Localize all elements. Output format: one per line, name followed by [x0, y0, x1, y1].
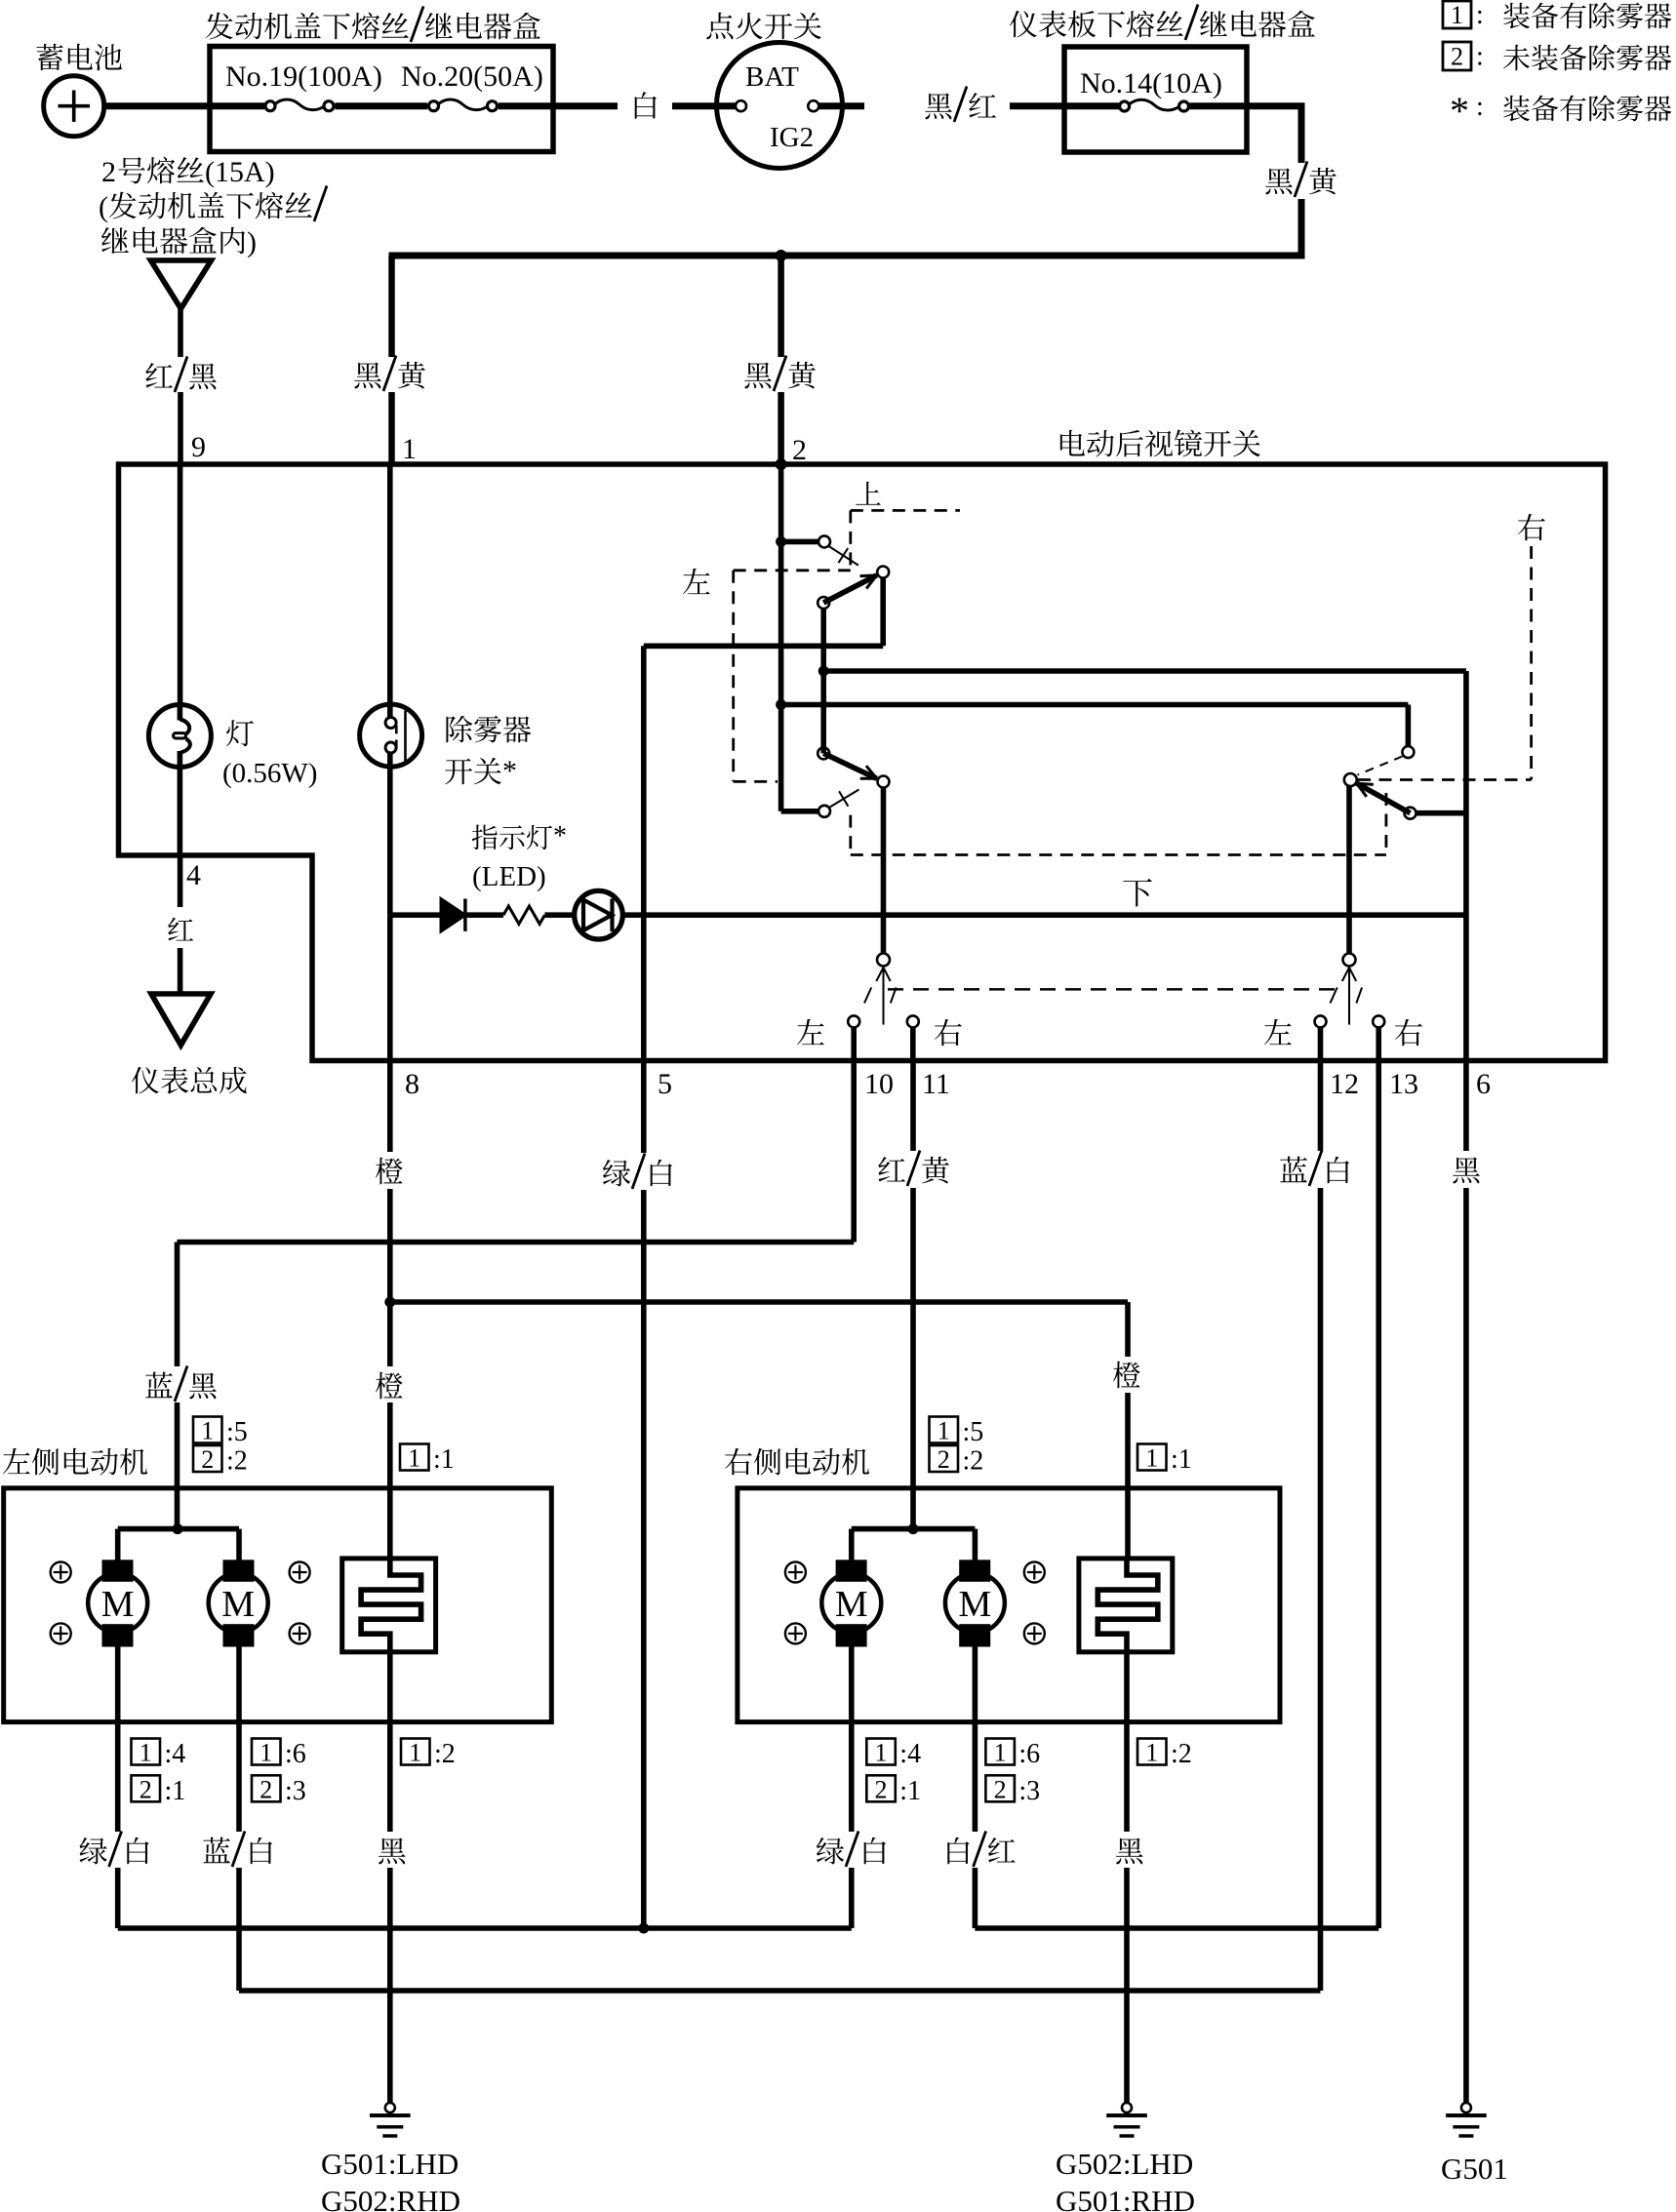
dashed rail 上 horizontal — [851, 509, 960, 512]
bottom rail A2 白/红 to pin13 — [975, 1925, 1378, 1931]
svg-text:BAT: BAT — [745, 61, 799, 93]
blade contact to right vertical — [1417, 810, 1466, 816]
dashed rail 上 vertical — [849, 510, 852, 570]
contact 左 pin10 — [848, 1015, 859, 1027]
wire 11 to motor bar — [910, 1188, 916, 1529]
svg-text:(15A): (15A) — [205, 156, 275, 188]
wire 2 drop lower — [778, 392, 784, 464]
svg-text:(0.56W): (0.56W) — [222, 758, 317, 789]
junction 橙 split — [384, 1297, 395, 1308]
wire 黑 right to ground — [1124, 1868, 1130, 2103]
svg-text:G501: G501 — [1441, 2152, 1508, 2186]
wire 绿/白 left lower — [115, 1868, 121, 1928]
legend row 1 — [1443, 1, 1471, 28]
svg-text:2: 2 — [140, 1775, 152, 1803]
junction wire5 — [638, 1923, 649, 1934]
junction center column — [818, 666, 829, 677]
label 左 pin12 — [1264, 1019, 1292, 1045]
wire 蓝/白 left upper — [236, 1722, 242, 1832]
橙 right to heater — [1125, 1393, 1131, 1559]
wire 8 continues — [387, 1189, 393, 1366]
wire 白 left — [553, 102, 618, 109]
wire color 黑 pin6 — [1453, 1157, 1480, 1183]
svg-text::5: :5 — [226, 1417, 248, 1447]
instrument cluster label — [132, 1067, 159, 1094]
wire color 黑 right — [1116, 1837, 1143, 1864]
wire color 橙 right — [1113, 1362, 1140, 1389]
mechanical link dashed — [888, 988, 1343, 991]
svg-text:IG2: IG2 — [770, 122, 814, 153]
svg-text:M: M — [835, 1584, 868, 1625]
wire 蓝/白 left lower — [236, 1868, 242, 1991]
svg-text:13: 13 — [1389, 1068, 1418, 1100]
wire 黑/红 right — [1010, 102, 1064, 109]
wire color 黑/黄 pin2 — [744, 362, 772, 388]
svg-text:4: 4 — [186, 859, 201, 891]
plus terminal symbol — [290, 1623, 310, 1643]
svg-text:9: 9 — [191, 431, 206, 463]
motor M1 right — [821, 1573, 881, 1633]
wire to diode — [390, 912, 441, 918]
switch blade lower-left — [818, 747, 829, 759]
fuse No.2 triangle symbol — [151, 260, 212, 309]
label 左 pin10 — [797, 1019, 824, 1045]
plus terminal symbol — [1024, 1623, 1045, 1643]
wire 10 horizontal — [178, 1240, 855, 1245]
lamp filament arc1 — [180, 720, 189, 735]
legend row 2 — [1443, 42, 1471, 70]
svg-text:1: 1 — [201, 1417, 214, 1445]
resistor — [503, 906, 544, 924]
wire 5 below box — [641, 1061, 647, 1154]
label 右 rail — [1518, 514, 1545, 540]
junction — [776, 250, 787, 261]
橙 left to heater — [387, 1402, 393, 1559]
wire 5 to bottom rail — [641, 1190, 647, 1928]
svg-text::2: :2 — [963, 1446, 984, 1477]
heater element right — [1079, 1559, 1173, 1652]
motor M1 left — [88, 1573, 147, 1633]
wire 2 drop upper — [778, 256, 784, 357]
lamp filament arc2 — [181, 739, 190, 753]
contact 左 pin12 — [1315, 1015, 1327, 1027]
svg-text:2: 2 — [994, 1775, 1007, 1803]
svg-text:1: 1 — [1451, 1, 1463, 29]
heater element left — [342, 1559, 436, 1652]
contact 右 pin13 — [1373, 1015, 1384, 1027]
label 右 pin11 — [935, 1019, 962, 1046]
dashed rail 左 vertical — [732, 571, 735, 782]
thin dashed link F — [1358, 757, 1403, 775]
wire 白/红 upper — [973, 1722, 978, 1832]
wire 1 to LED branch — [387, 753, 393, 915]
dashed rail 右 vertical — [1530, 546, 1533, 780]
wire 12 below box — [1318, 1061, 1324, 1152]
left motor bar — [118, 1526, 239, 1532]
wire diode to resistor — [465, 912, 503, 918]
svg-text:1: 1 — [994, 1739, 1007, 1767]
wire 5 vertical — [641, 646, 647, 1060]
wiper contact right — [1343, 954, 1356, 967]
wire color 白 — [635, 92, 657, 118]
svg-text::: : — [1476, 42, 1484, 72]
link B thin — [828, 790, 859, 809]
wire 2 vertical inside box — [778, 464, 784, 811]
dashed rail 左 horizontal — [734, 569, 851, 572]
svg-text:8: 8 — [405, 1068, 419, 1100]
svg-text::: : — [1476, 0, 1484, 30]
stub to contact A — [781, 539, 819, 545]
svg-text:1: 1 — [402, 433, 417, 465]
wire 1 drop lower — [388, 392, 395, 464]
wire battery to under-hood fuse box — [104, 102, 213, 109]
svg-text:*: * — [502, 755, 517, 787]
horizontal to wire 5 — [644, 643, 883, 649]
wire 黑 right upper — [1124, 1722, 1130, 1832]
wire to box edge — [499, 102, 553, 109]
switch blade upper-left — [823, 575, 876, 603]
left motor box title — [3, 1448, 30, 1474]
ground G501 right — [1461, 2103, 1471, 2113]
long horizontal feed wire — [389, 253, 1305, 259]
svg-text:2: 2 — [101, 156, 116, 188]
junction pin2 — [776, 458, 787, 470]
svg-text:G501:LHD: G501:LHD — [321, 2147, 459, 2181]
svg-text:G502:RHD: G502:RHD — [321, 2184, 460, 2212]
svg-text::1: :1 — [433, 1444, 455, 1475]
svg-text:1: 1 — [875, 1739, 888, 1767]
wire 12 long drop — [1318, 1188, 1324, 1991]
text line 2 — [109, 192, 137, 219]
battery 蓄电池 label — [36, 44, 62, 70]
contact 右 pin11 — [907, 1015, 919, 1027]
svg-text:G502:LHD: G502:LHD — [1056, 2147, 1193, 2181]
svg-text:5: 5 — [658, 1068, 672, 1100]
svg-text::4: :4 — [899, 1739, 921, 1769]
dashed rail 右 horizontal — [1358, 778, 1532, 781]
wire color 黑/红 — [925, 93, 952, 119]
wire 蓝/黑 lower — [175, 1402, 180, 1529]
wire color 蓝/白 pin12 — [1280, 1157, 1307, 1183]
ground G502/G501 middle — [1122, 2103, 1132, 2113]
diode — [441, 899, 465, 931]
plus terminal symbol — [51, 1623, 71, 1643]
battery symbol — [44, 76, 104, 137]
svg-text::3: :3 — [285, 1776, 306, 1806]
svg-text:2: 2 — [259, 1775, 272, 1803]
plus terminal symbol — [1024, 1562, 1045, 1583]
wire 黑/黄 drop upper — [1298, 106, 1305, 163]
wire color 蓝/白 left — [203, 1837, 230, 1864]
under-hood fuse/relay box 发动机盖下熔丝/继电器盒 — [210, 47, 553, 152]
svg-text::1: :1 — [899, 1776, 921, 1806]
IG2 terminal — [808, 100, 818, 111]
switch box title — [1060, 430, 1085, 456]
LED line to right vertical — [621, 912, 1466, 918]
defogger switch label line2 — [445, 759, 472, 785]
right vertical wire 6 — [1463, 671, 1469, 1061]
ground G501/G502 left — [385, 2103, 395, 2113]
wire 1 to defogger switch — [387, 464, 393, 718]
wire 白/红 lower — [973, 1868, 978, 1928]
svg-text::: : — [1476, 92, 1484, 122]
contact tail top — [395, 726, 398, 734]
motor wires down left box — [115, 1646, 121, 1722]
ground triangle 仪表总成 — [151, 994, 211, 1046]
ignition switch 点火开关 — [706, 13, 733, 39]
wire color 红/黑 — [145, 363, 173, 388]
svg-text:2: 2 — [792, 434, 807, 466]
switch box outline — [119, 464, 1606, 1061]
wire in box — [210, 102, 264, 109]
wire 绿/白 right lower — [849, 1868, 855, 1928]
svg-text:1: 1 — [1145, 1444, 1158, 1473]
svg-text:(LED): (LED) — [472, 861, 546, 892]
pivot column to wiper 2 — [1346, 786, 1352, 954]
wire 红/黑 lower — [178, 392, 183, 464]
svg-text::1: :1 — [1171, 1444, 1192, 1475]
svg-text:2: 2 — [938, 1445, 950, 1474]
wire to corner — [1247, 102, 1305, 109]
svg-text::1: :1 — [165, 1776, 186, 1806]
plus terminal symbol — [290, 1562, 310, 1583]
wire 黑/红 left — [819, 102, 865, 109]
wire color 绿/白 pin5 — [603, 1160, 630, 1186]
svg-text:12: 12 — [1330, 1068, 1359, 1100]
long horizontal to right vertical — [823, 668, 1466, 674]
svg-text:1: 1 — [140, 1739, 152, 1767]
contact A — [818, 535, 830, 547]
wire 黑 left upper — [387, 1722, 393, 1832]
svg-text::2: :2 — [434, 1739, 456, 1769]
pivot contact P — [1344, 773, 1357, 786]
橙 branch right drop — [1125, 1302, 1131, 1357]
wire color 红 — [168, 918, 193, 941]
svg-text:*: * — [553, 821, 567, 851]
wire resistor to LED — [544, 912, 575, 918]
svg-text:M: M — [221, 1584, 255, 1625]
wire color 蓝/黑 — [145, 1372, 173, 1399]
label 左 — [683, 569, 710, 594]
wire color 橙 pin8 — [376, 1158, 403, 1185]
wire 绿/白 left upper — [115, 1722, 121, 1832]
contact tail bottom — [395, 740, 398, 749]
svg-text:11: 11 — [922, 1068, 950, 1100]
wire 9 to lamp — [178, 464, 183, 705]
plus terminal symbol — [785, 1562, 806, 1583]
wiper contact left — [877, 954, 890, 967]
bottom rail B 蓝/白 to pin12 — [239, 1988, 1321, 1994]
wire 黑 left to ground — [387, 1868, 393, 2103]
contact F — [1402, 746, 1414, 758]
blade to wire5 link — [880, 578, 886, 647]
fuse No.20 — [429, 101, 439, 111]
svg-text:*: * — [1450, 89, 1469, 133]
BAT terminal — [736, 100, 746, 111]
svg-text::2: :2 — [226, 1446, 248, 1477]
wire color 黑 left — [379, 1837, 406, 1864]
wire 红 upper — [178, 855, 183, 907]
wire 红 lower — [178, 948, 183, 994]
svg-text::5: :5 — [963, 1417, 984, 1447]
plus terminal symbol — [51, 1562, 71, 1583]
lamp 灯(0.56W) — [148, 705, 211, 768]
svg-text:M: M — [101, 1584, 135, 1625]
svg-text:M: M — [959, 1584, 992, 1625]
svg-text:(: ( — [99, 191, 108, 223]
switch blade right — [1357, 783, 1411, 813]
svg-text:2: 2 — [1451, 43, 1463, 71]
motor wires down right box — [849, 1646, 855, 1722]
wire color 橙 left2 — [376, 1372, 403, 1400]
svg-text::6: :6 — [285, 1739, 306, 1769]
svg-text:1: 1 — [408, 1444, 420, 1473]
fuse No.14 — [1120, 101, 1130, 111]
svg-text::2: :2 — [1171, 1739, 1192, 1769]
wire to pin 8 — [387, 915, 393, 1060]
wire 10 below box — [851, 1061, 857, 1243]
wire 蓝/黑 upper — [175, 1243, 180, 1367]
svg-text:No.20(50A): No.20(50A) — [401, 60, 543, 93]
wire 绿/白 right upper — [849, 1722, 855, 1832]
plus terminal symbol — [785, 1623, 806, 1643]
motor M2 right — [945, 1573, 1005, 1633]
wire 13 long drop — [1376, 1061, 1381, 1929]
dashed rail 左 bottom — [734, 780, 778, 783]
svg-text:10: 10 — [864, 1068, 894, 1100]
wire color 黑/黄 right — [1265, 168, 1293, 194]
stub to contact B — [781, 809, 819, 814]
dash fuse/relay box 仪表板下熔丝/继电器盒 — [1064, 47, 1247, 152]
svg-text:2: 2 — [875, 1775, 888, 1803]
wire 黑/黄 drop lower — [1298, 199, 1305, 259]
wire color 黑/黄 pin1 — [354, 362, 381, 388]
fuse box title — [206, 13, 233, 40]
wire 6 to ground — [1463, 1188, 1469, 2103]
link A thin — [828, 546, 858, 566]
svg-text:No.14(10A): No.14(10A) — [1080, 67, 1222, 99]
drop to contact F — [1406, 705, 1412, 747]
junction stub A — [776, 536, 786, 547]
svg-text:1: 1 — [409, 1739, 421, 1767]
wire color 红/黄 pin11 — [878, 1157, 905, 1182]
motor M2 left — [209, 1573, 268, 1633]
label 下 — [1123, 879, 1151, 907]
svg-text:6: 6 — [1476, 1068, 1491, 1100]
wire 6 below box — [1463, 1061, 1469, 1152]
wire 白 right — [672, 102, 736, 109]
right motor bar — [852, 1526, 976, 1532]
wire 8 below box — [387, 1061, 393, 1153]
svg-text:1: 1 — [1145, 1739, 1158, 1767]
indicator LED label 指示灯* — [472, 825, 498, 850]
dash fuse box title — [1010, 11, 1037, 38]
svg-text:1: 1 — [938, 1417, 950, 1445]
defogger switch 除雾器开关* — [360, 704, 422, 767]
橙 branch horizontal — [390, 1299, 1128, 1305]
svg-text:No.19(100A): No.19(100A) — [225, 60, 382, 93]
wire 红/黑 upper — [178, 309, 183, 358]
wire 11 below box — [910, 1061, 916, 1152]
horizontal wire2 to right contact — [781, 702, 1409, 708]
column to wiper 1 — [881, 788, 887, 954]
svg-text:): ) — [247, 226, 257, 258]
svg-text:G501:RHD: G501:RHD — [1056, 2184, 1195, 2212]
wire color 绿/白 left — [80, 1837, 107, 1864]
dashed rail 下 — [849, 815, 852, 855]
label 上 — [856, 482, 881, 505]
label 右 pin13 — [1395, 1019, 1422, 1046]
wire color 绿/白 right — [817, 1837, 844, 1864]
junction line722 — [776, 699, 786, 710]
wire between fuses — [336, 102, 428, 109]
svg-text::4: :4 — [165, 1739, 186, 1769]
svg-text:1: 1 — [259, 1739, 272, 1767]
switch lever — [404, 711, 407, 763]
LED lamp symbol — [575, 890, 623, 939]
svg-text::3: :3 — [1018, 1776, 1040, 1806]
center column — [820, 609, 826, 754]
wire color 白/红 — [947, 1837, 969, 1864]
right motor box title — [725, 1448, 752, 1475]
lamp filament loop — [174, 733, 186, 738]
fuse No.19 — [265, 101, 275, 111]
wire to pin 4 — [178, 751, 183, 855]
bottom rail A1 绿/白 — [118, 1925, 852, 1931]
contact B — [818, 806, 830, 817]
svg-text::6: :6 — [1018, 1739, 1040, 1769]
wire 1 drop upper — [388, 256, 395, 357]
svg-text:2: 2 — [201, 1445, 214, 1474]
